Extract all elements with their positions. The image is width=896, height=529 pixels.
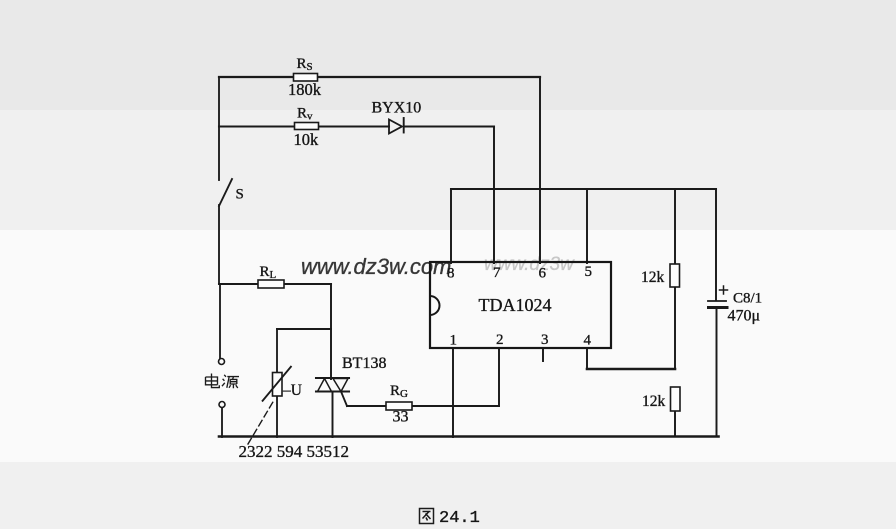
svg-text:2: 2: [496, 332, 504, 348]
wire RL drop: [330, 284, 332, 379]
wire pin6 drop: [539, 77, 541, 263]
wire pin5 riser: [586, 189, 588, 263]
wire RL rail: [219, 283, 331, 285]
svg-text:6: 6: [539, 266, 547, 282]
svg-text:–U: –U: [282, 382, 302, 399]
wire triac main lower: [332, 392, 334, 438]
svg-text:2322 594 53512: 2322 594 53512: [239, 442, 350, 461]
wire pin7 drop: [493, 127, 495, 264]
wire capacitor tail: [716, 309, 718, 436]
svg-text:3: 3: [541, 332, 549, 348]
wire Rv rail: [219, 125, 389, 127]
wire capacitor riser: [715, 189, 717, 300]
wire diode to pin7: [404, 125, 494, 127]
pin3 stub: [542, 348, 544, 361]
svg-text:12k: 12k: [642, 393, 666, 410]
varistor diagonal stroke: [262, 366, 292, 402]
svg-text:24.1: 24.1: [439, 509, 480, 528]
wire varistor branch: [277, 328, 331, 330]
svg-text:10k: 10k: [294, 130, 320, 149]
svg-text:TDA1024: TDA1024: [479, 295, 552, 315]
wire top rail: [219, 76, 540, 78]
resistor RL box: [258, 280, 284, 288]
resistor RS box: [294, 74, 318, 82]
wire bottom rail: [219, 435, 719, 438]
wire left rail upper: [218, 77, 220, 180]
svg-text:180k: 180k: [288, 80, 322, 99]
triac gate diagonal: [341, 392, 347, 407]
svg-text:5: 5: [585, 264, 593, 280]
wire pin1 drop: [452, 348, 454, 437]
capacitor plus sign: [720, 286, 728, 294]
svg-text:S: S: [236, 187, 244, 203]
resistor 12k lower box: [671, 387, 681, 411]
wire 12k middle: [674, 287, 676, 369]
svg-text:7: 7: [493, 265, 501, 281]
wire varistor to bottom rail: [276, 396, 278, 437]
wire terminal to bottom rail: [221, 408, 223, 437]
svg-text:33: 33: [393, 409, 409, 426]
caption 图 24.1: [420, 509, 434, 524]
terminal circle top: [219, 359, 225, 365]
wire pin8 riser: [450, 189, 452, 263]
IC notch: [430, 296, 440, 315]
svg-text:8: 8: [447, 266, 455, 282]
IC U1 TDA1024 body: [430, 262, 611, 348]
svg-text:1: 1: [450, 333, 458, 349]
triac triangle right: [333, 379, 348, 392]
varistor box: [273, 373, 283, 397]
wire varistor drop: [276, 329, 278, 373]
resistor 12k upper box: [670, 264, 680, 287]
wire gate to RG: [347, 405, 386, 407]
diode BYX10: [389, 120, 402, 134]
svg-text:4: 4: [584, 333, 592, 349]
triac bottom bar: [316, 390, 349, 392]
svg-text:12k: 12k: [641, 269, 665, 286]
wire 12k upper riser: [674, 189, 676, 264]
svg-text:470μ: 470μ: [728, 308, 761, 325]
switch S: [219, 179, 232, 206]
svg-text:BT138: BT138: [342, 355, 386, 372]
resistor Rv box: [295, 123, 319, 130]
pointer dashed line: [248, 401, 274, 444]
triac triangle left: [318, 379, 332, 392]
label power 电源: [206, 374, 240, 389]
resistor RG box: [386, 402, 412, 410]
wire left rail mid: [218, 205, 220, 284]
svg-text:C8/1: C8/1: [733, 291, 762, 307]
svg-text:BYX10: BYX10: [372, 100, 422, 117]
wire pin4 to 12k junction: [587, 368, 675, 371]
svg-text:www.dz3w.com: www.dz3w.com: [301, 254, 451, 279]
wire rail pins 8-5 to cap: [451, 188, 716, 190]
triac BT138 top bar: [316, 377, 349, 379]
capacitor C8/1 plates: [708, 300, 726, 302]
terminal circle bottom: [219, 402, 225, 408]
wire 12k lower tail: [674, 411, 676, 436]
wire RG to pin2: [412, 405, 499, 407]
wire left rail to terminal: [219, 284, 221, 358]
wire pin4 drop: [586, 348, 588, 369]
